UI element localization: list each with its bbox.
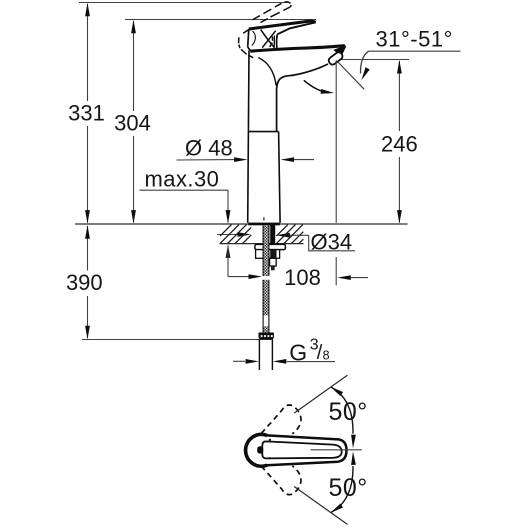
svg-text:50°: 50° bbox=[329, 398, 368, 426]
dimension max.30 label bbox=[145, 166, 220, 191]
spout tip wedge bbox=[333, 45, 346, 56]
dimension 108 right arrow and tick bbox=[336, 257, 368, 285]
top view dashed lever up bbox=[261, 405, 301, 434]
dimension 304 label bbox=[114, 111, 151, 136]
G3/8 connection tube bbox=[259, 340, 272, 370]
svg-text:390: 390 bbox=[66, 270, 103, 295]
dimension 390 extension line bottom bbox=[82, 339, 273, 341]
top view centerline bbox=[311, 449, 362, 451]
angle 31-51 arc arrow bbox=[359, 51, 370, 81]
svg-text:Ø34: Ø34 bbox=[311, 229, 353, 254]
top view lever inner outline bbox=[262, 441, 341, 458]
top view 50 degree line down bbox=[294, 487, 347, 525]
svg-text:108: 108 bbox=[284, 265, 321, 290]
counter bottom line bbox=[220, 243, 304, 245]
aerator vertical extension line bbox=[335, 60, 337, 223]
dimension 331 line and arrows bbox=[85, 3, 90, 224]
lever base inner curve bbox=[252, 31, 255, 46]
dimension 304 extension line bbox=[125, 19, 316, 21]
counter top line bbox=[75, 223, 408, 225]
svg-text:8: 8 bbox=[323, 349, 330, 363]
label 50 degrees upper bbox=[329, 398, 368, 426]
top view 50 degree line up bbox=[294, 375, 347, 413]
lever handle top edge bbox=[249, 21, 312, 29]
dimension 108 left leader and arrow bbox=[228, 274, 262, 279]
svg-text:304: 304 bbox=[114, 111, 151, 136]
counter hatching left section bbox=[220, 225, 251, 244]
mounting nut dark segment bbox=[270, 250, 276, 259]
dimension 331 label bbox=[68, 100, 105, 125]
dimension O34 label bbox=[311, 229, 353, 254]
svg-text:246: 246 bbox=[381, 132, 418, 157]
faucet body inner curve bbox=[258, 58, 276, 86]
svg-text:31°-51°: 31°-51° bbox=[376, 26, 453, 51]
mounting flange nut bbox=[255, 244, 286, 249]
mounting nut block bbox=[256, 250, 280, 259]
mounting hole dark shank bar bbox=[270, 225, 275, 244]
dimension 390 label bbox=[66, 270, 103, 295]
faucet upper body left edge bbox=[247, 51, 250, 132]
dimension 331 extension line bbox=[79, 2, 289, 4]
dimension O48 leaders and arrows bbox=[177, 157, 315, 162]
lever handle tip bbox=[310, 20, 316, 25]
dimension G3/8 label bbox=[289, 337, 329, 366]
angle 31-51 label bbox=[376, 26, 453, 51]
angle 31-51 leader line bbox=[368, 50, 460, 52]
lever handle underside bbox=[277, 22, 316, 34]
dimension O34 leaders and arrows bbox=[217, 232, 355, 251]
dimension 246 extension line bbox=[338, 59, 409, 61]
aerator face angle line bbox=[338, 62, 365, 90]
lever pivot cross curves bbox=[261, 30, 276, 48]
dimension 108 label bbox=[284, 265, 321, 290]
top view lower arc arrows bbox=[329, 451, 356, 515]
spout swing arc arrow bbox=[304, 80, 335, 95]
shank step 2 bbox=[271, 266, 275, 270]
svg-text:50°: 50° bbox=[329, 474, 368, 502]
lever front face bbox=[274, 34, 277, 48]
dimension 304 line and arrows bbox=[131, 20, 136, 224]
faucet column (O48 body) bbox=[248, 132, 280, 223]
top view solid lever outline bbox=[246, 434, 347, 466]
top view dashed lever down bbox=[261, 466, 301, 495]
dimension max.30 leader and arrows bbox=[140, 190, 231, 276]
dimension 246 line and arrows bbox=[397, 60, 402, 224]
dimension O48 label bbox=[185, 135, 233, 160]
hose crimp collar bbox=[259, 333, 274, 340]
braided hose bbox=[263, 225, 269, 332]
shank step 1 bbox=[270, 258, 277, 266]
label 50 degrees lower bbox=[329, 474, 368, 502]
dimension G3/8 leaders and arrows bbox=[233, 359, 335, 364]
counter hatching right section bbox=[276, 225, 303, 244]
dashed lever raised position bbox=[239, 2, 292, 58]
faucet spout tip face bbox=[341, 46, 346, 56]
faucet spout top edge bbox=[250, 46, 345, 52]
faucet base gasket band bbox=[248, 223, 280, 226]
dimension 390 line and arrows bbox=[85, 225, 90, 339]
svg-text:Ø 48: Ø 48 bbox=[185, 135, 233, 160]
aerator bbox=[327, 51, 344, 66]
top view lever dot bbox=[257, 439, 271, 460]
lever base left edge bbox=[248, 29, 251, 51]
top view upper arc arrows bbox=[329, 385, 356, 449]
svg-text:G: G bbox=[289, 339, 307, 365]
svg-text:331: 331 bbox=[68, 100, 105, 125]
faucet centerline tick bbox=[263, 217, 265, 220]
svg-text:max.30: max.30 bbox=[145, 166, 220, 191]
faucet spout underside bbox=[277, 64, 328, 132]
dimension 246 label bbox=[381, 132, 418, 157]
